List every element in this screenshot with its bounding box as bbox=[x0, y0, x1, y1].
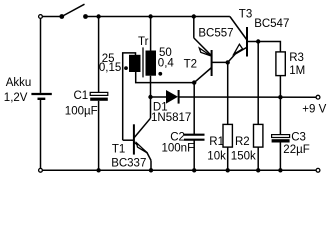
wire top rail Tr to T2 bbox=[151, 16, 194, 18]
wire top rail circle to switch bbox=[43, 16, 62, 18]
battery Akku wire minus bbox=[40, 100, 42, 168]
terminal 0V right bbox=[316, 168, 320, 172]
battery terminal bottom-left bbox=[39, 168, 43, 172]
svg-text:BC337: BC337 bbox=[111, 157, 146, 169]
transistor T3 emitter diagonal bbox=[228, 48, 247, 63]
diode D1 cathode bar bbox=[178, 90, 180, 104]
capacitor C3 plus plate bbox=[272, 135, 290, 138]
wire top rail T2 to T3 bbox=[194, 16, 230, 18]
node junction C1 top bbox=[96, 14, 100, 18]
polarity dot feedback winding bbox=[124, 66, 128, 70]
node C2 ground bbox=[192, 168, 196, 172]
battery Akku wire plus bbox=[40, 18, 42, 93]
wire top rail to transformer bbox=[99, 16, 151, 18]
battery terminal top-left bbox=[39, 15, 43, 19]
node R1 ground bbox=[226, 168, 230, 172]
switch S1 lever bbox=[62, 4, 85, 16]
wire T2 emitter vertical bbox=[193, 17, 195, 38]
svg-text:C2: C2 bbox=[170, 131, 185, 143]
svg-text:1N5817: 1N5817 bbox=[151, 112, 191, 124]
capacitor C2 top plate bbox=[184, 134, 205, 136]
capacitor C2 bottom plate bbox=[184, 139, 205, 141]
svg-text:C3: C3 bbox=[291, 132, 306, 144]
svg-text:1,2V: 1,2V bbox=[4, 92, 28, 104]
transistor T3 base bar bbox=[246, 27, 248, 57]
diode D1 triangle bbox=[166, 90, 178, 104]
transistor T2 base bar bbox=[211, 50, 213, 76]
node T2 collector junction bbox=[192, 80, 196, 84]
wire node to T1 collector bbox=[150, 97, 152, 118]
svg-text:100µF: 100µF bbox=[65, 106, 98, 118]
node C3 ground bbox=[278, 168, 282, 172]
node D1 anode junction bbox=[148, 95, 152, 99]
switch S1 left contact bbox=[59, 14, 64, 19]
wire switch to node C1 bbox=[86, 16, 99, 18]
transistor T3 base wire bbox=[247, 41, 258, 43]
transistor T1 base wire bbox=[123, 139, 134, 141]
svg-text:Tr: Tr bbox=[138, 36, 149, 48]
wire R2 bottom bbox=[257, 147, 259, 170]
wire R1 bottom bbox=[227, 147, 229, 170]
node junction T2 emitter top bbox=[192, 14, 196, 18]
transformer Tr feedback winding 25 turns bbox=[129, 55, 141, 72]
svg-text:T2: T2 bbox=[184, 59, 197, 71]
svg-text:T3: T3 bbox=[239, 9, 252, 21]
svg-text:0,4: 0,4 bbox=[158, 58, 175, 70]
svg-text:Akku: Akku bbox=[6, 77, 32, 89]
transistor T1 base bar bbox=[133, 124, 135, 154]
wire +9V rail bbox=[179, 96, 317, 98]
transistor T3 collector diagonal bbox=[230, 17, 247, 40]
node R3 C3 +9V bbox=[278, 95, 282, 99]
battery Akku long plate bbox=[31, 93, 51, 95]
svg-text:22µF: 22µF bbox=[283, 144, 309, 156]
svg-text:R2: R2 bbox=[235, 136, 250, 148]
resistor R1 body bbox=[223, 124, 232, 147]
resistor R2 body bbox=[254, 124, 263, 147]
svg-text:1M: 1M bbox=[289, 65, 305, 77]
wire base node to R3 bbox=[258, 42, 280, 52]
svg-text:+9 V: +9 V bbox=[302, 104, 326, 116]
svg-text:100nF: 100nF bbox=[162, 143, 195, 155]
svg-text:150k: 150k bbox=[231, 151, 256, 163]
node T2 base / T3 emitter bbox=[226, 60, 230, 64]
battery Akku short plate bbox=[38, 98, 46, 100]
svg-text:C1: C1 bbox=[74, 90, 89, 102]
resistor R3 body bbox=[276, 52, 285, 76]
wire R3 bottom bbox=[279, 76, 281, 98]
svg-text:R3: R3 bbox=[289, 52, 304, 64]
transistor T1 emitter arrow bbox=[137, 143, 148, 153]
node T3 base / R2 / R3 bbox=[256, 39, 260, 43]
wire C1 bottom bbox=[98, 101, 100, 171]
transistor T1 collector diagonal bbox=[134, 118, 150, 137]
wire Tr feedback bottom bbox=[136, 72, 195, 83]
wire R1 top from T2 base node bbox=[227, 62, 229, 124]
wire T2 collector down to C2 bbox=[193, 83, 195, 135]
transistor T2 emitter diagonal bbox=[194, 38, 212, 56]
wire C2 bottom bbox=[193, 140, 195, 171]
terminal +9V bbox=[316, 95, 320, 99]
wire Tr feedback top jog bbox=[123, 53, 136, 140]
wire C3 top bbox=[279, 97, 281, 134]
transformer Tr primary winding 50 turns bbox=[146, 51, 157, 76]
transistor T2 collector diagonal bbox=[194, 68, 211, 83]
svg-text:BC547: BC547 bbox=[254, 18, 289, 30]
transistor T2 base wire bbox=[212, 61, 228, 63]
svg-text:0,15: 0,15 bbox=[99, 62, 121, 74]
svg-text:T1: T1 bbox=[112, 144, 125, 156]
node junction Tr primary top bbox=[148, 14, 152, 18]
wire T1 emitter to ground bbox=[150, 160, 152, 170]
node R2 ground bbox=[256, 168, 260, 172]
transistor T1 emitter diagonal bbox=[134, 142, 151, 161]
transformer Tr core bbox=[142, 47, 144, 77]
wire Tr primary top bbox=[150, 17, 152, 51]
transistor T3 emitter arrow bbox=[234, 44, 243, 54]
wire Tr primary bottom to node D1 bbox=[150, 76, 152, 97]
bottom ground rail bbox=[43, 169, 317, 171]
polarity dot primary winding bbox=[158, 72, 162, 76]
wire R2 top from T3 base node bbox=[257, 42, 259, 125]
wire C3 bottom bbox=[279, 143, 281, 171]
node T1 emitter ground bbox=[149, 168, 153, 172]
wire C1 top bbox=[98, 17, 100, 93]
capacitor C3 minus plate bbox=[272, 139, 290, 142]
wire D1 anode bbox=[151, 96, 167, 98]
switch S1 right contact bbox=[83, 14, 88, 19]
svg-text:R1: R1 bbox=[209, 136, 224, 148]
svg-text:BC557: BC557 bbox=[198, 28, 233, 40]
capacitor C1 minus plate bbox=[90, 98, 108, 101]
capacitor C1 plus plate bbox=[90, 92, 108, 95]
transistor T2 emitter arrow bbox=[199, 48, 211, 56]
svg-text:10k: 10k bbox=[207, 151, 226, 163]
node C1 ground bbox=[96, 168, 100, 172]
